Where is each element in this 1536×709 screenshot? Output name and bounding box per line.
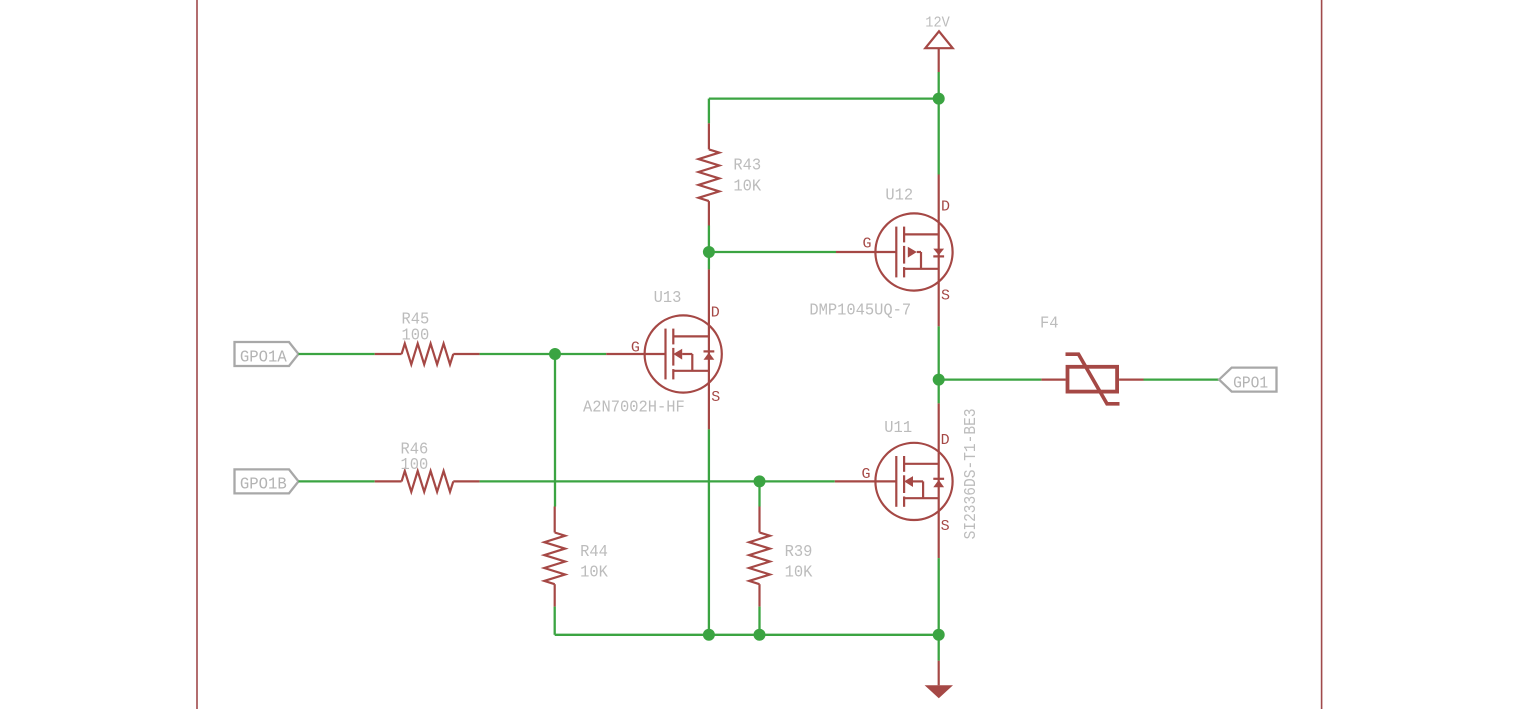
value A2N7002H-HF	[583, 399, 685, 418]
junction node A	[549, 348, 561, 360]
port GPO1B	[235, 469, 299, 494]
wire GPO1A	[299, 353, 375, 355]
svg-text:G: G	[631, 339, 640, 356]
svg-text:10K: 10K	[733, 178, 762, 197]
junction U12 gate node	[703, 246, 715, 258]
ground	[925, 661, 953, 699]
wire 12V vertical	[938, 72, 940, 175]
transistor U13	[606, 269, 722, 429]
value 100 of R45	[402, 326, 430, 345]
wire 12V to R43	[708, 99, 710, 124]
pin S of U12	[941, 288, 950, 305]
svg-text:U13: U13	[654, 289, 682, 308]
svg-text:D: D	[941, 199, 950, 216]
svg-text:10K: 10K	[785, 564, 814, 583]
svg-text:GPO1B: GPO1B	[240, 476, 287, 495]
resistor R46	[375, 471, 480, 492]
pin G of U12	[863, 235, 872, 252]
wire ground row	[555, 634, 939, 636]
wire node A down	[554, 354, 556, 507]
wire GPO1B	[299, 480, 375, 482]
pin G of U11	[862, 466, 871, 483]
svg-text:A2N7002H-HF: A2N7002H-HF	[583, 399, 685, 418]
resistor R44	[544, 507, 565, 607]
svg-text:U11: U11	[884, 419, 912, 438]
wire R39 to ground row	[758, 607, 760, 635]
wire R43 to U13 drain	[708, 226, 710, 270]
junction R39 at ground row	[754, 629, 766, 641]
wire node GPO1 to F4	[939, 378, 1042, 380]
svg-text:12V: 12V	[925, 14, 950, 31]
wire U11 source to GND	[938, 558, 940, 661]
resistor R43	[699, 123, 720, 225]
label R43	[733, 157, 761, 176]
value 100 of R46	[401, 456, 429, 475]
transistor U12	[836, 175, 953, 327]
resistor R39	[749, 507, 770, 607]
svg-text:S: S	[941, 518, 950, 535]
svg-text:DMP1045UQ-7: DMP1045UQ-7	[809, 301, 911, 320]
svg-text:100: 100	[401, 456, 429, 475]
wire U13 source down	[708, 429, 710, 634]
svg-text:U12: U12	[885, 187, 913, 206]
port GPO1A	[235, 342, 299, 367]
svg-text:D: D	[711, 305, 720, 322]
svg-text:SI2336DS-T1-BE3: SI2336DS-T1-BE3	[962, 408, 981, 539]
label R39	[785, 543, 813, 562]
svg-text:S: S	[711, 389, 720, 406]
wire F4 to GPO1	[1144, 378, 1220, 380]
resistor R45	[375, 344, 480, 365]
pin S of U13	[711, 389, 720, 406]
junction U13 source at ground row	[703, 629, 715, 641]
svg-text:GPO1A: GPO1A	[240, 348, 288, 367]
value DMP1045UQ-7	[809, 301, 911, 320]
wire R44 to ground row	[554, 607, 556, 635]
label R45	[402, 311, 430, 330]
svg-text:R39: R39	[785, 543, 813, 562]
pin D of U13	[711, 305, 720, 322]
wire 12V horizontal	[709, 97, 939, 99]
value SI2336DS-T1-BE3	[962, 408, 981, 539]
port GPO1	[1219, 368, 1276, 394]
svg-text:G: G	[862, 466, 871, 483]
svg-text:100: 100	[402, 326, 430, 345]
value 10K of R44	[580, 564, 609, 583]
label U13	[654, 289, 682, 308]
value 10K of R39	[785, 564, 814, 583]
wire R45 to U13 gate	[480, 353, 607, 355]
supply 12V	[925, 14, 952, 72]
pin S of U11	[941, 518, 950, 535]
junction 12V node	[933, 93, 945, 105]
fuse F4	[1041, 354, 1143, 404]
junction GND node	[933, 629, 945, 641]
wire U12 source to node GPO1	[938, 326, 940, 403]
label U12	[885, 187, 913, 206]
svg-text:G: G	[863, 235, 872, 252]
label F4	[1040, 315, 1059, 334]
wire R46 to U11 gate	[480, 480, 835, 482]
pin G of U13	[631, 339, 640, 356]
wire U12 gate	[709, 251, 836, 253]
junction node GPO1	[933, 374, 945, 386]
wire R39 top lead	[758, 481, 760, 506]
svg-text:GPO1: GPO1	[1233, 375, 1268, 394]
label R44	[580, 543, 608, 562]
transistor U11	[835, 403, 953, 558]
svg-text:S: S	[941, 288, 950, 305]
label R46	[401, 441, 429, 460]
svg-text:10K: 10K	[580, 564, 609, 583]
svg-text:R44: R44	[580, 543, 608, 562]
svg-text:D: D	[941, 432, 950, 449]
pin D of U11	[941, 432, 950, 449]
label U11	[884, 419, 912, 438]
value 10K of R43	[733, 178, 762, 197]
svg-text:F4: F4	[1040, 315, 1059, 334]
svg-text:R43: R43	[733, 157, 761, 176]
pin D of U12	[941, 199, 950, 216]
junction R39 top	[754, 475, 766, 487]
